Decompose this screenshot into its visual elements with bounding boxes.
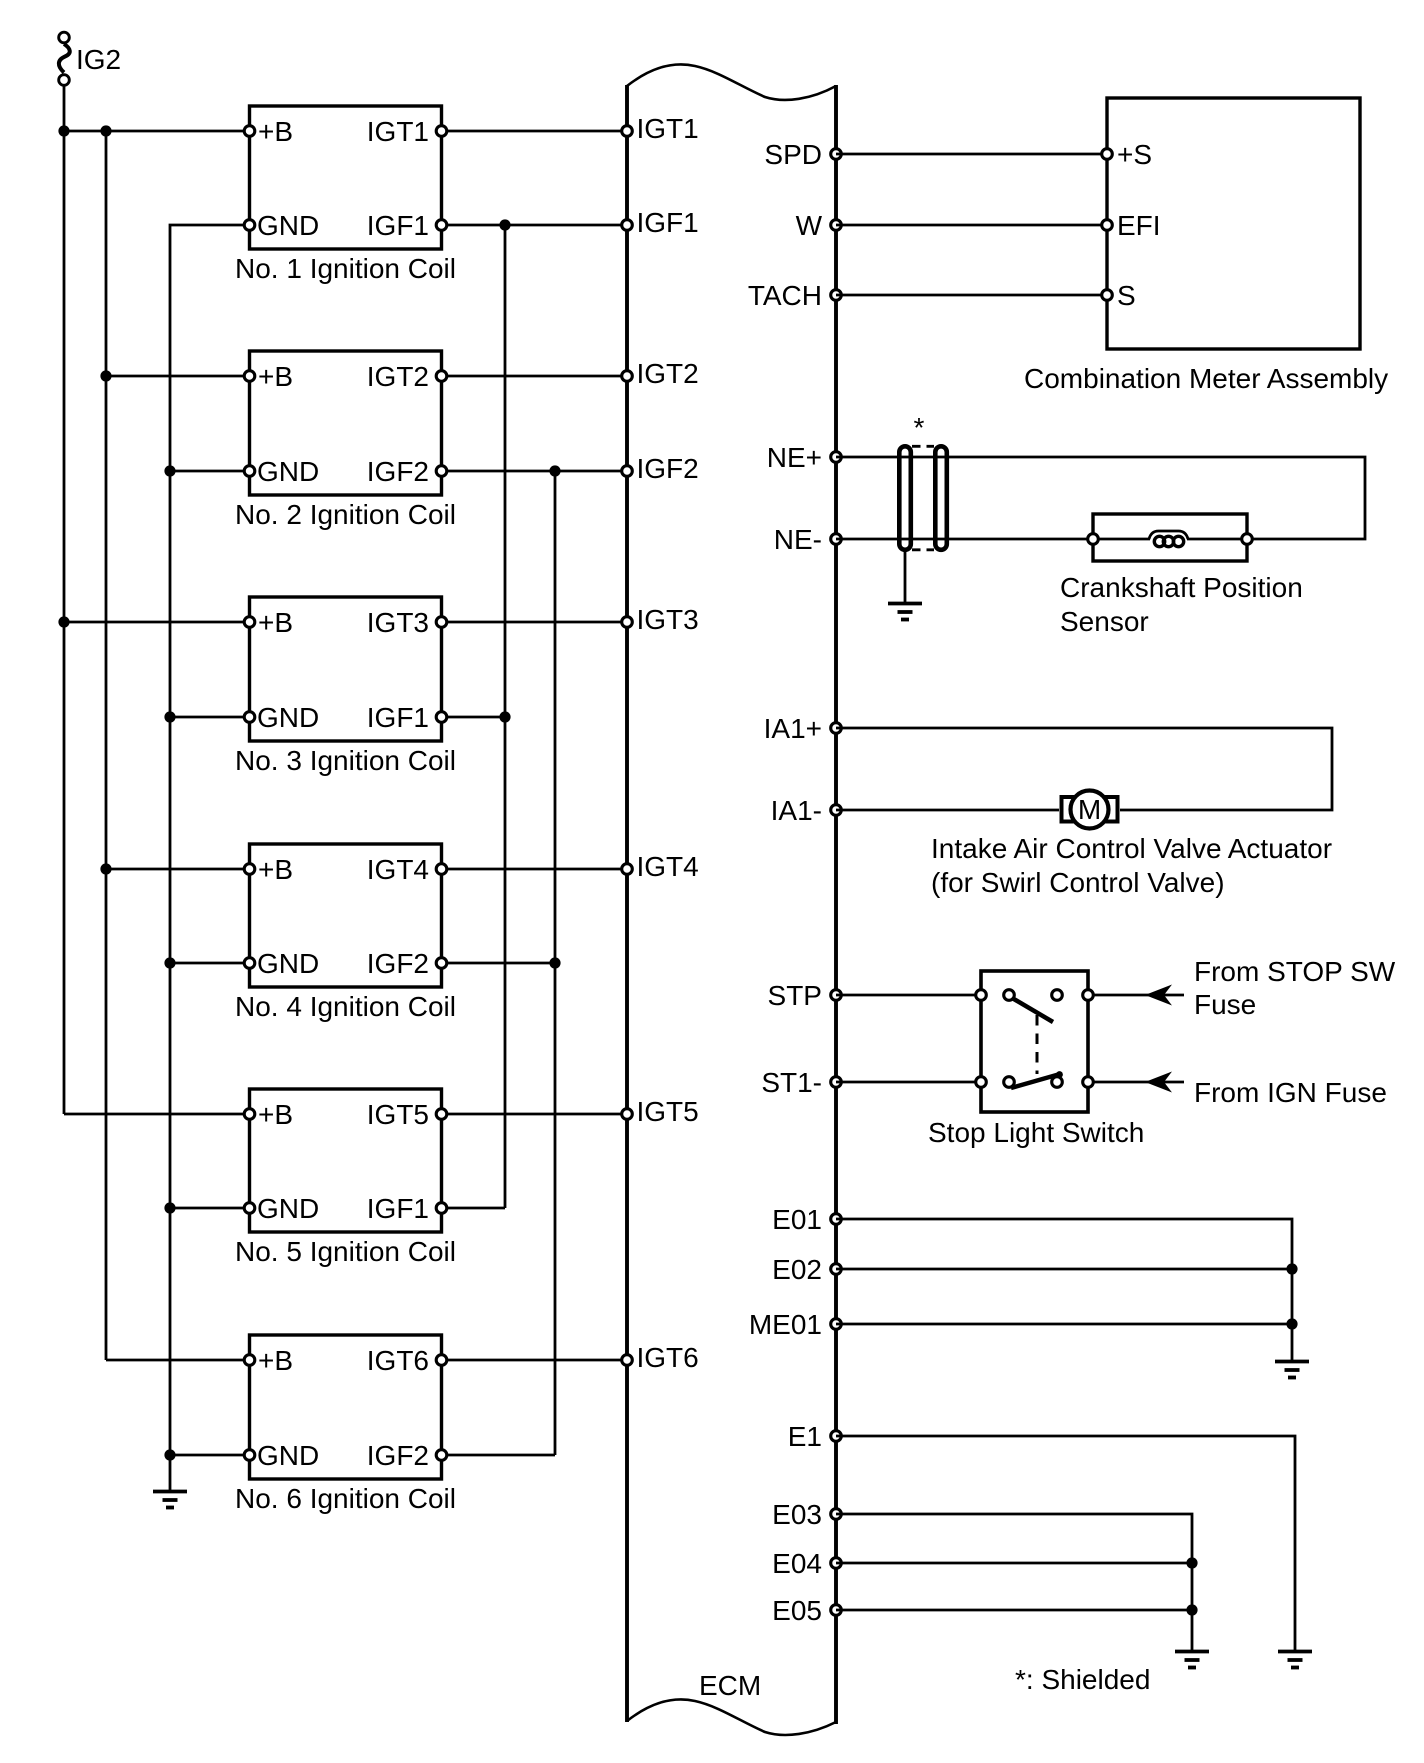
svg-text:NE-: NE-: [774, 524, 822, 555]
connector IG2 bottom terminal: [59, 75, 70, 86]
svg-text:ECM: ECM: [699, 1670, 761, 1701]
pin labels coil2: [257, 361, 429, 487]
svg-text:IGF1: IGF1: [367, 702, 429, 733]
node junction bus-B to coil2: [100, 370, 111, 381]
svg-text:+B: +B: [258, 361, 293, 392]
svg-text:IA1-: IA1-: [771, 795, 822, 826]
pin IGF2 coil2: [436, 466, 447, 477]
ECM pin TACH: [831, 290, 842, 301]
motor terminal frame: [1062, 797, 1118, 822]
ECM pin STP: [831, 990, 842, 1001]
wire SPD to +S: [836, 153, 1107, 156]
wire IGF1 coil3 to bus: [442, 716, 506, 719]
pin +B coil2: [244, 371, 255, 382]
svg-text:IA1+: IA1+: [764, 713, 822, 744]
wire sensor internal right: [1187, 538, 1247, 541]
wire switch to STOP SW fuse: [1088, 994, 1184, 997]
node junction E04: [1186, 1557, 1197, 1568]
wire TACH to S: [836, 294, 1107, 297]
pin +B coil6: [244, 1355, 255, 1366]
svg-text:M: M: [1078, 794, 1101, 825]
pickup coil turn 1: [1154, 536, 1164, 546]
wire IA1- to motor: [836, 809, 1059, 812]
svg-text:+B: +B: [258, 1345, 293, 1376]
wire GND feed No.6 coil: [170, 1454, 250, 1457]
meter pin labels: [1117, 139, 1161, 311]
wire IGF2 coil6 to bus: [442, 1454, 556, 1457]
switch contact bottom right: [1052, 1077, 1063, 1088]
svg-text:GND: GND: [257, 948, 319, 979]
wire IA1+ loop: [836, 728, 1332, 810]
node junction IG2/bus-A: [58, 125, 69, 136]
wire stub to coil ground: [169, 1455, 172, 1491]
combination meter assembly box: [1107, 98, 1360, 349]
svg-text:No. 2 Ignition Coil: No. 2 Ignition Coil: [235, 499, 456, 530]
ECM pin E04: [831, 1558, 842, 1569]
meter pin EFI: [1102, 220, 1113, 231]
shield dashed link top: [912, 445, 934, 448]
ECM pin IA1+: [831, 723, 842, 734]
ECM pin ST1-: [831, 1077, 842, 1088]
node junction gnd bus coil6: [164, 1449, 175, 1460]
switch contact top right: [1052, 990, 1063, 1001]
pin GND coil1: [244, 220, 255, 231]
svg-text:(for Swirl Control Valve): (for Swirl Control Valve): [931, 867, 1225, 898]
svg-text:NE+: NE+: [767, 442, 822, 473]
label From STOP SW Fuse: [1194, 956, 1396, 1020]
svg-text:*: *: [914, 412, 925, 443]
wire sensor internal left: [1093, 538, 1150, 541]
sensor pin right: [1242, 534, 1253, 545]
switch pin left top: [976, 990, 987, 1001]
pin IGT4 coil4: [436, 864, 447, 875]
ECM pin IGF2: [622, 466, 633, 477]
svg-text:IG2: IG2: [76, 44, 121, 75]
ECM pin NE+: [831, 452, 842, 463]
svg-text:GND: GND: [257, 456, 319, 487]
svg-text:No. 3 Ignition Coil: No. 3 Ignition Coil: [235, 745, 456, 776]
wire IGF1 coil5 to bus: [442, 1207, 506, 1210]
svg-text:E02: E02: [772, 1254, 822, 1285]
wire E03 to ground drop: [836, 1514, 1192, 1651]
wire +B feed to No.2 coil: [106, 375, 250, 378]
switch blade top (open): [1013, 999, 1053, 1023]
svg-text:+B: +B: [258, 1099, 293, 1130]
pin +B coil5: [244, 1109, 255, 1120]
ECM left boundary line: [625, 85, 629, 1722]
node junction E02: [1286, 1263, 1297, 1274]
svg-text:IGT5: IGT5: [367, 1099, 429, 1130]
shield symbol right loop: [935, 446, 947, 550]
svg-text:IGF2: IGF2: [367, 456, 429, 487]
arrowhead from IGN fuse: [1145, 1072, 1172, 1093]
ground (E01/E02/ME01): [1275, 1362, 1309, 1378]
ground (shield): [888, 604, 922, 620]
wire IGF1 coil1 to ECM: [442, 224, 628, 227]
svg-text:ST1-: ST1-: [761, 1067, 822, 1098]
svg-text:No. 4 Ignition Coil: No. 4 Ignition Coil: [235, 991, 456, 1022]
pin labels coil3: [257, 607, 429, 733]
pin GND coil6: [244, 1450, 255, 1461]
svg-text:Combination Meter Assembly: Combination Meter Assembly: [1024, 363, 1388, 394]
ECM torn top edge: [627, 64, 836, 100]
wire E01 to ground drop: [836, 1219, 1292, 1361]
svg-text:No. 6 Ignition Coil: No. 6 Ignition Coil: [235, 1483, 456, 1514]
svg-text:*: Shielded: *: Shielded: [1015, 1664, 1150, 1695]
wire STP to switch: [836, 994, 981, 997]
pin IGT1 coil1: [436, 126, 447, 137]
pin IGF1 coil1: [436, 220, 447, 231]
svg-text:Fuse: Fuse: [1194, 989, 1256, 1020]
wire +B bus A vertical: [63, 131, 66, 1114]
svg-text:IGF1: IGF1: [367, 1193, 429, 1224]
svg-text:IGT1: IGT1: [637, 113, 699, 144]
ECM pin IGF1: [622, 220, 633, 231]
label Crankshaft Position Sensor: [1060, 572, 1303, 637]
ground (E03/E04/E05): [1175, 1652, 1209, 1668]
switch blade bottom tip: [1056, 1071, 1063, 1078]
svg-text:IGT6: IGT6: [637, 1342, 699, 1373]
node junction gnd bus coil4: [164, 957, 175, 968]
wire IGT1 coil1 to ECM: [442, 130, 628, 133]
svg-text:S: S: [1117, 280, 1136, 311]
pin GND coil3: [244, 712, 255, 723]
switch contact top left: [1004, 990, 1015, 1001]
svg-text:IGF2: IGF2: [367, 1440, 429, 1471]
wire +B feed to No.3 coil: [64, 621, 250, 624]
svg-text:IGT4: IGT4: [367, 854, 429, 885]
pin IGT5 coil5: [436, 1109, 447, 1120]
wire W to EFI: [836, 224, 1107, 227]
svg-text:E1: E1: [788, 1421, 822, 1452]
switch pin right top: [1083, 990, 1094, 1001]
switch pin right bottom: [1083, 1077, 1094, 1088]
svg-text:+B: +B: [258, 607, 293, 638]
pin labels coil4: [257, 854, 429, 979]
pin +B coil1: [244, 126, 255, 137]
ignition coil 5 box: [250, 1089, 442, 1232]
wire GND feed No.3 coil: [170, 716, 250, 719]
wire +B feed to No.6 coil: [106, 1359, 250, 1362]
pin +B coil4: [244, 864, 255, 875]
svg-text:IGT5: IGT5: [637, 1096, 699, 1127]
ignition coil 1 box: [250, 106, 442, 249]
ECM pin IGT6: [622, 1355, 633, 1366]
pin IGF1 coil3: [436, 712, 447, 723]
svg-text:SPD: SPD: [764, 139, 822, 170]
node junction gnd bus coil2: [164, 465, 175, 476]
svg-text:IGT3: IGT3: [637, 604, 699, 635]
ECM left pin labels: [637, 113, 699, 1373]
ignition coil 6 box: [250, 1335, 442, 1479]
svg-text:+B: +B: [258, 116, 293, 147]
switch blade bottom (closed): [1011, 1074, 1060, 1088]
pickup coil turn 2: [1163, 536, 1173, 546]
arrowhead from STOP SW fuse: [1145, 985, 1172, 1006]
svg-text:IGF2: IGF2: [637, 453, 699, 484]
pin labels coil5: [257, 1099, 429, 1224]
pickup coil turn 3: [1173, 536, 1183, 546]
pin +B coil3: [244, 617, 255, 628]
wire IGF1 bus vertical: [504, 225, 507, 1208]
ECM pin E03: [831, 1509, 842, 1520]
wire switch to IGN fuse: [1088, 1081, 1184, 1084]
shield dashed link bottom: [912, 548, 934, 551]
svg-text:IGF1: IGF1: [367, 210, 429, 241]
svg-text:E03: E03: [772, 1499, 822, 1530]
svg-text:E05: E05: [772, 1595, 822, 1626]
wire +B feed to No.5 coil: [64, 1113, 250, 1116]
wire IGT5 coil5 to ECM: [442, 1113, 628, 1116]
wire shield to ground: [904, 552, 907, 603]
wire IGT3 coil3 to ECM: [442, 621, 628, 624]
wire ST1- to switch: [836, 1081, 981, 1084]
pin IGT3 coil3: [436, 617, 447, 628]
node junction ME01: [1286, 1318, 1297, 1329]
wire IGT4 coil4 to ECM: [442, 868, 628, 871]
ECM pin IGT1: [622, 126, 633, 137]
ECM right boundary line: [834, 85, 838, 1724]
svg-text:Crankshaft Position: Crankshaft Position: [1060, 572, 1303, 603]
switch link dashed: [1036, 1015, 1039, 1074]
ECM pin NE-: [831, 534, 842, 545]
ECM pin IGT3: [622, 617, 633, 628]
motor circle M: [1071, 791, 1109, 829]
pin IGF2 coil6: [436, 1450, 447, 1461]
node junction gnd bus coil5: [164, 1202, 175, 1213]
svg-text:+S: +S: [1117, 139, 1152, 170]
svg-text:GND: GND: [257, 702, 319, 733]
svg-text:From IGN Fuse: From IGN Fuse: [1194, 1077, 1387, 1108]
wire GND No.1 coil to ground bus: [170, 225, 250, 1455]
ECM pin IA1-: [831, 805, 842, 816]
meter pin S: [1102, 290, 1113, 301]
pin IGF2 coil4: [436, 958, 447, 969]
svg-text:ME01: ME01: [749, 1309, 822, 1340]
node junction bus-B to coil4: [100, 863, 111, 874]
ECM pin E01: [831, 1214, 842, 1225]
wire +B feed to No.1 coil: [64, 130, 250, 133]
wire IGF2 coil2 to ECM: [442, 470, 628, 473]
node junction bus-B tap: [100, 125, 111, 136]
svg-text:No. 1 Ignition Coil: No. 1 Ignition Coil: [235, 253, 456, 284]
ECM pin E1: [831, 1431, 842, 1442]
ECM pin E02: [831, 1264, 842, 1275]
pin GND coil2: [244, 466, 255, 477]
wire E1 to ground drop: [836, 1436, 1295, 1651]
pin labels coil1: [257, 116, 429, 241]
wire NE+ loop: [836, 457, 1365, 539]
svg-text:E01: E01: [772, 1204, 822, 1235]
svg-text:+B: +B: [258, 854, 293, 885]
wire GND feed No.2 coil: [170, 470, 250, 473]
wire E05: [836, 1609, 1192, 1612]
wire NE- to sensor: [836, 538, 1093, 541]
ECM torn bottom edge: [627, 1699, 836, 1735]
svg-text:W: W: [796, 210, 823, 241]
pin labels coil6: [257, 1345, 429, 1471]
svg-text:Stop Light Switch: Stop Light Switch: [928, 1117, 1144, 1148]
label Intake Air Control Valve Actuator: [931, 833, 1332, 898]
meter pin +S: [1102, 149, 1113, 160]
ground (ignition coils): [153, 1492, 187, 1508]
ECM pin IGT5: [622, 1109, 633, 1120]
ignition coil 2 box: [250, 351, 442, 495]
wire IGF2 coil4 to bus: [442, 962, 556, 965]
node junction IGF2 bus top: [549, 465, 560, 476]
wire GND feed No.4 coil: [170, 962, 250, 965]
pickup coil arch: [1149, 531, 1188, 539]
wire ME01: [836, 1323, 1292, 1326]
svg-text:TACH: TACH: [748, 280, 822, 311]
connector IG2 squiggle: [59, 44, 70, 73]
pin GND coil5: [244, 1203, 255, 1214]
ground (E1): [1278, 1652, 1312, 1668]
ignition coil 3 box: [250, 597, 442, 741]
wire +B feed to No.4 coil: [106, 868, 250, 871]
svg-text:IGT4: IGT4: [637, 851, 699, 882]
svg-text:EFI: EFI: [1117, 210, 1161, 241]
switch pin left bottom: [976, 1077, 987, 1088]
node junction E05: [1186, 1604, 1197, 1615]
node junction IGF1 bus top: [499, 219, 510, 230]
pin IGT6 coil6: [436, 1355, 447, 1366]
svg-text:From STOP SW: From STOP SW: [1194, 956, 1396, 987]
node junction bus-A to coil3: [58, 616, 69, 627]
svg-text:IGT2: IGT2: [637, 358, 699, 389]
wire IG2 stem: [63, 86, 66, 132]
ignition coil 4 box: [250, 844, 442, 987]
wire IGF2 bus vertical: [554, 471, 557, 1455]
stop light switch box: [981, 971, 1088, 1112]
switch contact bottom left: [1004, 1077, 1015, 1088]
svg-text:GND: GND: [257, 1440, 319, 1471]
crankshaft position sensor box: [1093, 514, 1247, 561]
svg-text:IGT6: IGT6: [367, 1345, 429, 1376]
wire GND feed No.5 coil: [170, 1207, 250, 1210]
shield symbol left loop: [899, 446, 911, 550]
ECM pin ME01: [831, 1319, 842, 1330]
svg-text:IGT1: IGT1: [367, 116, 429, 147]
pin GND coil4: [244, 958, 255, 969]
wire +B bus B vertical: [105, 131, 108, 1360]
svg-text:STP: STP: [768, 980, 822, 1011]
connector IG2 top terminal: [59, 32, 70, 43]
ECM right pin labels: [748, 139, 823, 1626]
svg-text:IGT3: IGT3: [367, 607, 429, 638]
wire IGT2 coil2 to ECM: [442, 375, 628, 378]
wire E02: [836, 1268, 1292, 1271]
wire E04: [836, 1562, 1192, 1565]
svg-text:No. 5 Ignition Coil: No. 5 Ignition Coil: [235, 1236, 456, 1267]
ECM pin E05: [831, 1605, 842, 1616]
svg-text:IGT2: IGT2: [367, 361, 429, 392]
ECM pin IGT2: [622, 371, 633, 382]
sensor pin left: [1088, 534, 1099, 545]
svg-text:GND: GND: [257, 210, 319, 241]
node junction IGF1 bus coil3: [499, 711, 510, 722]
wire IGT6 coil6 to ECM: [442, 1359, 628, 1362]
ECM pin IGT4: [622, 864, 633, 875]
svg-text:GND: GND: [257, 1193, 319, 1224]
pin IGT2 coil2: [436, 371, 447, 382]
node junction IGF2 bus coil4: [549, 957, 560, 968]
svg-text:Sensor: Sensor: [1060, 606, 1149, 637]
svg-text:Intake Air Control Valve Actua: Intake Air Control Valve Actuator: [931, 833, 1332, 864]
ECM pin W: [831, 220, 842, 231]
pin IGF1 coil5: [436, 1203, 447, 1214]
node junction gnd bus coil3: [164, 711, 175, 722]
svg-text:IGF2: IGF2: [367, 948, 429, 979]
svg-text:IGF1: IGF1: [637, 207, 699, 238]
ECM pin SPD: [831, 149, 842, 160]
svg-text:E04: E04: [772, 1548, 822, 1579]
